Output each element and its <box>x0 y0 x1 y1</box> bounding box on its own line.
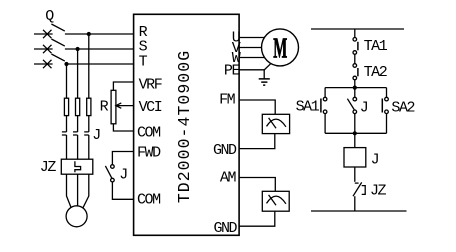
wire JZ to motor middle <box>77 174 79 206</box>
svg-text:J: J <box>371 151 379 168</box>
contact TA2 bar <box>357 68 359 76</box>
label SA2 <box>391 100 414 117</box>
wire drop T to fuse <box>66 64 68 98</box>
motor M letter <box>273 34 287 65</box>
svg-text:SA1: SA1 <box>296 99 320 116</box>
wire phase T to terminal T <box>65 63 134 65</box>
relay coil J box <box>344 148 366 167</box>
svg-text:SA2: SA2 <box>391 100 414 117</box>
motor M circle <box>262 29 299 66</box>
wire TA2 to node <box>354 80 356 88</box>
svg-text:PE: PE <box>224 63 241 80</box>
wire TA1 to TA2 <box>354 54 356 63</box>
svg-text:J: J <box>360 100 368 117</box>
wire J branch bottom <box>354 114 356 134</box>
svg-text:VRF: VRF <box>139 76 162 93</box>
wire JZ to motor right <box>83 174 89 208</box>
wire parallel top rail <box>325 87 386 89</box>
thermal contact JZ bracket <box>362 186 366 195</box>
svg-text:J: J <box>92 127 100 144</box>
contactor J main contact 2 <box>73 132 78 135</box>
ammeter needle <box>269 195 276 205</box>
svg-text:FM: FM <box>219 92 236 109</box>
label terminal FWD <box>137 145 161 162</box>
wire phase T lead-in <box>34 63 53 65</box>
node parallel top <box>353 86 357 90</box>
button SA1 top terminal <box>323 97 327 101</box>
label JZ contact <box>370 183 387 200</box>
relay contact J blade <box>347 99 354 110</box>
switch Q label <box>45 8 54 25</box>
fuse-cross mark phase T <box>43 60 52 68</box>
wire FWD to J aux contact <box>112 152 133 165</box>
wire PE to ground <box>239 70 264 79</box>
fuse FU1 <box>64 98 68 115</box>
label J aux parallel <box>360 100 368 117</box>
contactor J main contact 1 <box>62 132 67 135</box>
switch Q pole 3 blade <box>51 54 64 61</box>
button SA1 bar <box>320 99 322 113</box>
label terminal VRF <box>139 76 162 93</box>
label R potentiometer <box>100 98 109 115</box>
label terminal W <box>232 50 241 67</box>
relay contact J (FWD) bottom terminal <box>111 178 115 182</box>
wire SA1 branch top <box>324 88 326 98</box>
thermal relay JZ heater symbol <box>75 161 81 172</box>
wire drop S to fuse <box>77 49 79 98</box>
wire phase S lead-in <box>34 48 53 50</box>
contact TA1 bar <box>357 42 359 51</box>
frequency meter PF box <box>262 114 289 133</box>
wire phase R to terminal R <box>65 33 134 35</box>
thermal contact JZ tick <box>355 182 359 184</box>
label terminal COM 2 <box>137 192 161 209</box>
svg-text:COM: COM <box>137 192 161 209</box>
wire phase R lead-in <box>34 33 53 35</box>
fuse FU3 <box>87 98 91 115</box>
label model TD2000-4T0900G vertical <box>175 50 194 203</box>
label terminal GND <box>213 142 237 159</box>
wire AM to ammeter <box>239 178 275 192</box>
relay contact J top terminal <box>353 97 357 101</box>
contactor J main contact 3 <box>84 132 89 135</box>
label terminal COM <box>137 125 161 142</box>
label terminal T <box>139 54 148 71</box>
svg-text:TA1: TA1 <box>364 38 388 55</box>
contact TA2 top terminal <box>353 64 357 68</box>
label TA1 <box>364 38 388 55</box>
label terminal VCI <box>139 99 162 116</box>
wire W to motor <box>239 57 264 59</box>
label terminal S <box>139 39 148 56</box>
fuse FU2 <box>76 98 80 115</box>
frequency meter scale arc <box>267 119 286 127</box>
label TA2 <box>364 64 387 81</box>
wire parallel bottom rail <box>325 132 386 134</box>
inverter TD2000 box U1 <box>134 14 240 235</box>
wire SA2 branch top <box>386 88 388 98</box>
wire ammeter to GND <box>239 211 275 226</box>
wire FM to frequency meter <box>239 100 275 114</box>
svg-text:TA2: TA2 <box>364 64 387 81</box>
wire frequency meter to GND <box>239 134 275 149</box>
ammeter PA box <box>262 191 289 211</box>
svg-text:COM: COM <box>137 125 161 142</box>
thermal contact JZ blade <box>353 182 362 196</box>
wire fuse3 to contact <box>88 116 90 132</box>
label JZ <box>40 159 57 176</box>
relay contact J (FWD) top terminal <box>111 165 115 169</box>
wire J contact to COM <box>112 182 133 199</box>
potentiometer R top wire <box>113 82 133 90</box>
wire motor frame to PE <box>264 64 271 70</box>
label SA1 <box>296 99 320 116</box>
svg-text:TD2000-4T0900G: TD2000-4T0900G <box>175 50 194 203</box>
control bottom rail L2 <box>311 210 407 212</box>
button SA2 bar <box>381 99 383 113</box>
node parallel bottom <box>353 131 357 135</box>
motor circle bottom-left <box>66 206 87 227</box>
ground symbol PE <box>259 79 270 85</box>
wire fuse2 to contact <box>77 116 79 132</box>
contact TA1 top terminal <box>353 38 357 42</box>
label terminal PE <box>224 63 241 80</box>
button SA2 bottom terminal <box>385 110 389 114</box>
svg-text:GND: GND <box>213 220 237 237</box>
wire contact1 to JZ <box>66 135 68 159</box>
wire SA2 branch bottom <box>386 114 388 134</box>
label terminal U <box>232 29 240 46</box>
label terminal V <box>232 40 241 57</box>
wire rail to TA1 <box>354 29 356 38</box>
label J coil <box>371 151 379 168</box>
wire phase S to terminal S <box>65 48 134 50</box>
frequency meter needle <box>269 118 276 128</box>
wire JZ to motor left <box>67 174 72 208</box>
relay contact J (FWD) blade <box>105 166 112 178</box>
label J main contacts <box>92 127 100 144</box>
wire U to motor <box>239 37 265 39</box>
potentiometer R wiper arrow <box>116 103 134 108</box>
contact TA1 bottom terminal <box>353 51 357 55</box>
wire coil to JZ contact <box>354 167 356 182</box>
fuse-cross mark phase R <box>43 30 52 38</box>
contact TA2 bottom terminal <box>353 76 357 80</box>
label J aux contact FWD <box>119 166 127 183</box>
wire V to motor <box>239 47 262 49</box>
thermal relay JZ box <box>61 159 93 174</box>
svg-text:JZ: JZ <box>40 159 57 176</box>
wire contact3 to JZ <box>88 135 90 159</box>
node tap R <box>87 32 91 36</box>
wire contact2 to JZ <box>77 135 79 159</box>
wire SA1 branch bottom <box>324 114 326 134</box>
svg-text:FWD: FWD <box>137 145 161 162</box>
label terminal GND 2 <box>213 220 237 237</box>
switch Q pole 1 blade <box>51 24 64 31</box>
node tap T <box>64 62 68 66</box>
control top rail L1 <box>311 28 404 30</box>
svg-text:VCI: VCI <box>139 99 162 116</box>
relay contact J bottom terminal <box>353 110 357 114</box>
wire JZ to bottom rail <box>354 196 356 211</box>
switch Q pole 2 blade <box>51 39 64 46</box>
wire node to relay coil <box>354 133 356 147</box>
svg-text:GND: GND <box>213 142 237 159</box>
wire drop R to fuse <box>88 34 90 98</box>
button SA1 bottom terminal <box>323 110 327 114</box>
label terminal R <box>139 24 148 41</box>
wire fuse1 to contact <box>66 116 68 132</box>
button SA2 top terminal <box>385 97 389 101</box>
node tap S <box>76 47 80 51</box>
svg-text:J: J <box>119 166 127 183</box>
fuse-cross mark phase S <box>43 45 52 53</box>
potentiometer R body <box>111 90 116 124</box>
potentiometer R bottom wire <box>113 124 133 131</box>
label terminal AM <box>220 169 237 186</box>
wire J branch top <box>354 88 356 98</box>
svg-text:M: M <box>273 34 287 65</box>
svg-text:JZ: JZ <box>370 183 387 200</box>
svg-text:AM: AM <box>220 169 237 186</box>
ammeter scale arc <box>267 196 286 204</box>
label terminal FM <box>219 92 236 109</box>
